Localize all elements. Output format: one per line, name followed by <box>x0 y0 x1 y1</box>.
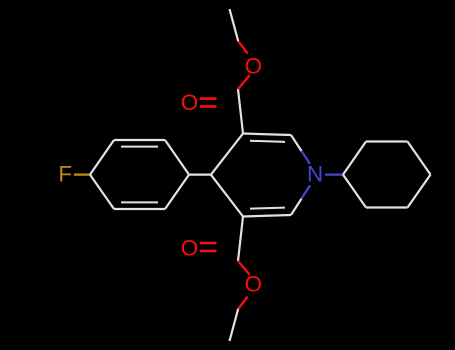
svg-text:O: O <box>181 90 198 115</box>
bond C6-N grey half <box>291 199 302 215</box>
dihydropyridine bond C4-C3 <box>211 134 243 175</box>
svg-text:F: F <box>58 162 72 187</box>
dihydropyridine double bond C5=C6 main <box>243 215 291 217</box>
svg-text:O: O <box>181 236 198 261</box>
bottom ester: grey bond C5-carbonylC <box>238 217 243 262</box>
bond F-C1 (gold) <box>74 173 90 175</box>
svg-text:N: N <box>307 162 323 187</box>
top ester: C=O double bond upper line <box>200 97 217 100</box>
bottom ester: methyl bond red half (near O) <box>238 297 248 309</box>
cyclohexyl ring edge TR-R <box>408 142 431 175</box>
bottom ester: C=O double bond lower line <box>200 250 217 253</box>
top ester: grey bond C3-carbonylC <box>238 89 243 134</box>
fluorophenyl ring edge L-TL <box>90 140 114 175</box>
bond C2-N grey half <box>291 135 302 151</box>
fluorophenyl ring edge TR-R <box>165 140 189 175</box>
aromatic inner line on TL-TR <box>121 146 158 148</box>
bond C2-N blue half <box>302 151 311 164</box>
top ester: bond carbonylC - O(ester) <box>238 76 250 90</box>
cyclohexyl ring edge R-BR <box>408 175 431 208</box>
fluorophenyl ring edge BR-BL <box>114 208 165 210</box>
cyclohexyl ring edge TL-TR <box>366 140 408 142</box>
top ester: C=O double bond lower line <box>200 105 217 108</box>
svg-text:O: O <box>245 272 262 297</box>
fluorophenyl ring edge R-BR <box>165 175 189 209</box>
dihydropyridine double bond C3=C2 main <box>243 134 291 136</box>
dihydropyridine double bond C5=C6 inner <box>250 208 285 209</box>
bottom ester: C=O double bond upper line <box>200 242 217 245</box>
bottom ester: bond carbonylC - O(ester) <box>238 261 250 275</box>
cyclohexyl ring edge BR-BL <box>366 206 408 208</box>
top ester: methyl bond red half (near O) <box>238 41 248 53</box>
aromatic inner line on BR-BL <box>121 201 158 203</box>
cyclohexyl ring edge BL-L <box>343 175 366 208</box>
dihydropyridine bond C4-C5 <box>211 175 243 217</box>
svg-text:O: O <box>245 53 262 78</box>
fluorophenyl ring edge BL-L <box>90 175 114 209</box>
bond phenyl-C4 <box>189 174 211 176</box>
bottom ester: methyl bond grey half (CH3 end) <box>230 309 239 341</box>
bond C6-N blue half <box>302 185 311 198</box>
bond N-cyclohexyl (blue) <box>325 173 343 175</box>
fluorophenyl ring edge TL-TR <box>114 139 165 141</box>
top ester: methyl bond grey half (CH3 end) <box>230 9 239 41</box>
dihydropyridine double bond C3=C2 inner <box>250 141 285 142</box>
cyclohexyl ring edge L-TL <box>343 142 366 175</box>
